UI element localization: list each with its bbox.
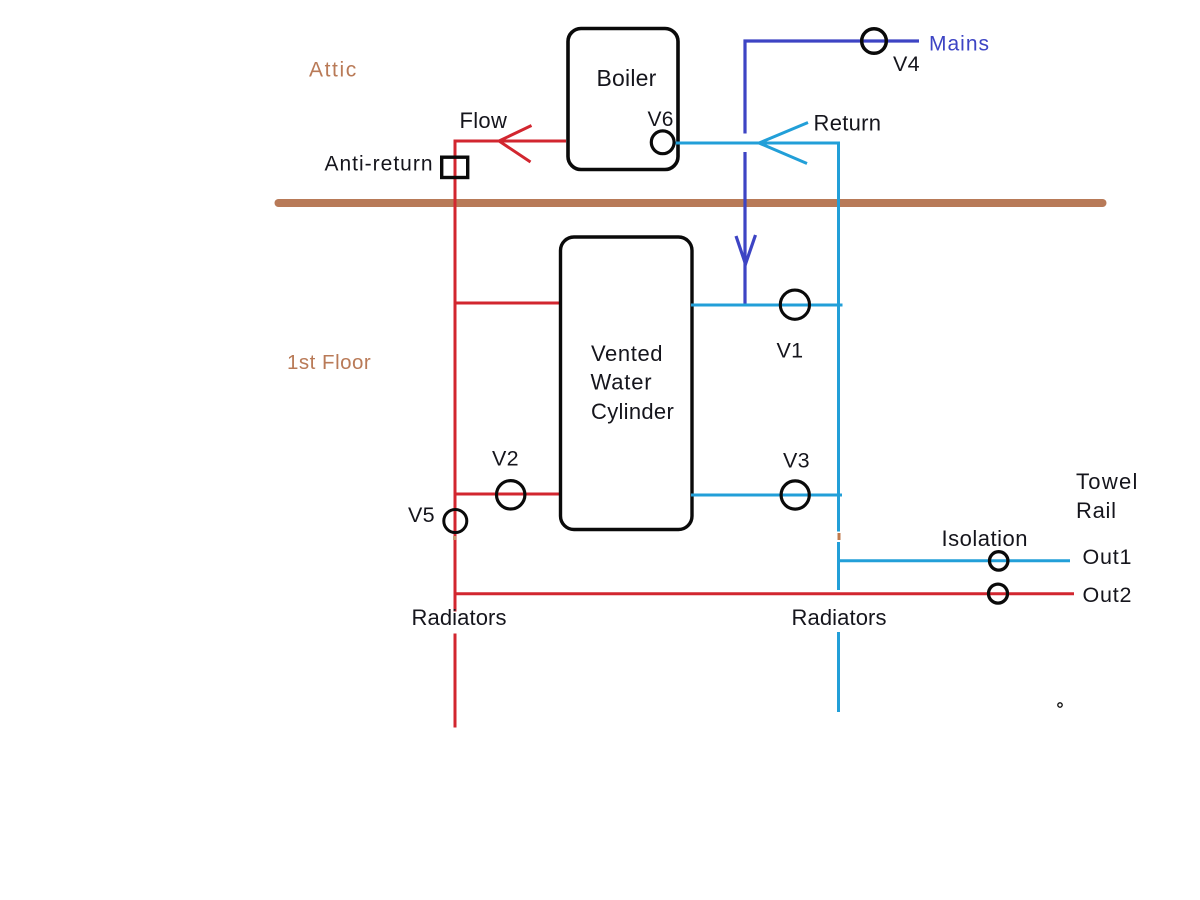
valve V1: [780, 290, 809, 319]
svg-text:V5: V5: [408, 503, 435, 527]
svg-text:V1: V1: [777, 339, 804, 363]
svg-text:Out1: Out1: [1083, 545, 1133, 569]
svg-text:Flow: Flow: [460, 108, 508, 133]
wire: cyan return horizontal into boiler: [675, 142, 838, 145]
wire: red branch to cylinder top: [455, 302, 563, 305]
anti-return valve (square): [442, 157, 468, 177]
valve on Out2: [989, 584, 1008, 603]
wire: mains drop upper segment (indigo): [743, 40, 746, 134]
arrow: return direction (cyan, pointing left): [759, 123, 808, 164]
stray mark: tan tick on return riser: [838, 533, 841, 540]
svg-text:Out2: Out2: [1083, 583, 1133, 607]
svg-text:Anti-return: Anti-return: [325, 153, 434, 176]
wire: mains drop lower segment (indigo): [743, 152, 746, 306]
svg-text:Towel: Towel: [1076, 469, 1139, 494]
stray mark: tan tick below V5: [453, 536, 456, 540]
svg-text:Rail: Rail: [1076, 498, 1117, 523]
wire: mains horizontal (indigo): [744, 39, 920, 42]
valve: isolation valve on Out1: [990, 552, 1008, 570]
wire: red branch to cylinder bottom via V2: [455, 493, 563, 496]
svg-text:Radiators: Radiators: [412, 605, 507, 630]
wire: cyan return riser vertical (upper): [837, 142, 840, 532]
svg-text:Radiators: Radiators: [792, 605, 887, 630]
wire: cyan branch cylinder top via V1: [691, 304, 843, 307]
svg-text:V3: V3: [783, 449, 810, 473]
wire: red flow riser vertical (below Radiators label): [454, 634, 457, 728]
wire: cyan branch cylinder bottom via V3: [691, 494, 842, 497]
svg-text:V2: V2: [492, 447, 519, 471]
boiler: [568, 29, 678, 170]
valve V2: [497, 481, 525, 509]
arrow: mains flow direction (indigo, pointing down): [736, 235, 756, 264]
svg-text:Vented: Vented: [591, 341, 663, 366]
valve V4: [862, 29, 887, 54]
svg-text:1st Floor: 1st Floor: [287, 351, 371, 374]
wire: red flow riser vertical (upper): [454, 140, 457, 612]
svg-text:Cylinder: Cylinder: [591, 399, 674, 424]
arrow: flow direction (red, pointing left): [499, 126, 532, 163]
valve V3: [781, 481, 809, 509]
valve V5: [444, 510, 467, 533]
svg-text:Water: Water: [591, 370, 653, 395]
wire: red flow horizontal from boiler: [455, 140, 566, 143]
floor divider between Attic and 1st Floor: [279, 199, 1103, 207]
svg-text:V6: V6: [648, 108, 674, 131]
svg-text:Boiler: Boiler: [597, 65, 657, 91]
svg-text:Attic: Attic: [309, 59, 358, 82]
svg-text:Return: Return: [814, 111, 882, 136]
wire: cyan towel rail line to Out1: [838, 559, 1070, 562]
svg-text:V4: V4: [893, 52, 920, 76]
svg-text:Isolation: Isolation: [942, 526, 1028, 551]
cylinder: vented water cylinder tank: [561, 237, 693, 530]
svg-text:Mains: Mains: [929, 33, 990, 56]
stray mark: tiny circle: [1058, 703, 1062, 707]
valve V6: [651, 131, 674, 154]
wire: cyan return riser vertical (middle): [837, 542, 840, 590]
wire: cyan return riser vertical (below Radiators label): [837, 632, 840, 712]
wire: red radiators line to Out2: [455, 592, 1074, 595]
